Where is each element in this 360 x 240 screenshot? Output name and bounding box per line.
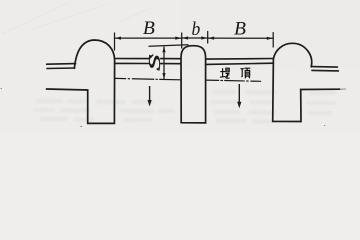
text 頂 (hand-drawn glyph)	[241, 68, 251, 78]
arrowhead B1 left	[115, 37, 121, 40]
tick 1	[114, 33, 116, 50]
tick 4	[272, 33, 274, 48]
arrowhead S' down	[162, 73, 165, 79]
tick 2	[181, 33, 183, 48]
S' dimension top tick line	[149, 45, 188, 46]
text 堤 (hand-drawn glyph)	[220, 68, 230, 78]
prime mark of S' label	[150, 55, 153, 58]
dash-dot centerline, left segment	[115, 78, 181, 79]
svg-text:B: B	[234, 19, 246, 39]
arrowhead S' up	[162, 46, 165, 52]
down arrow right	[237, 84, 241, 108]
arrowhead B2 left	[208, 37, 214, 40]
right structure outline (dome, foot box, berm)	[273, 43, 340, 121]
dimension line B (left span)	[115, 37, 182, 39]
ghost bleed-through text rows (very faint)	[34, 90, 336, 124]
left structure outline (berm, foot box, dome)	[47, 40, 115, 123]
crest road double lines, segment between left dome and middle column (gap for S' label)	[115, 59, 181, 64]
svg-text:S: S	[145, 54, 164, 70]
svg-text:B: B	[143, 19, 155, 39]
down arrow left	[148, 86, 152, 107]
arrowheads of dimension lines	[115, 36, 273, 79]
crest road double lines, far-left segment	[47, 64, 76, 69]
middle column with domed cap	[181, 46, 206, 123]
arrowhead B2 right	[267, 37, 273, 40]
svg-text:b: b	[192, 20, 201, 40]
arrowhead b right	[201, 36, 207, 39]
crest road double lines, segment between middle column and right dome	[206, 59, 274, 65]
faint diagonal scratches top-left	[2, 2, 150, 34]
scan speckles	[1, 88, 326, 127]
dimension line b (middle span)	[182, 37, 208, 39]
dimension line B (right span)	[208, 37, 274, 39]
dash-dot centerline, right segment	[206, 80, 273, 82]
paper background	[0, 0, 360, 133]
S' dimension vertical line	[163, 47, 165, 79]
arrowhead b left	[182, 36, 188, 39]
crest road double lines, far-right segment	[312, 67, 339, 71]
faded tail of right berm line	[340, 88, 346, 90]
tick 3	[207, 32, 209, 44]
arrowhead B1 right	[175, 37, 181, 40]
